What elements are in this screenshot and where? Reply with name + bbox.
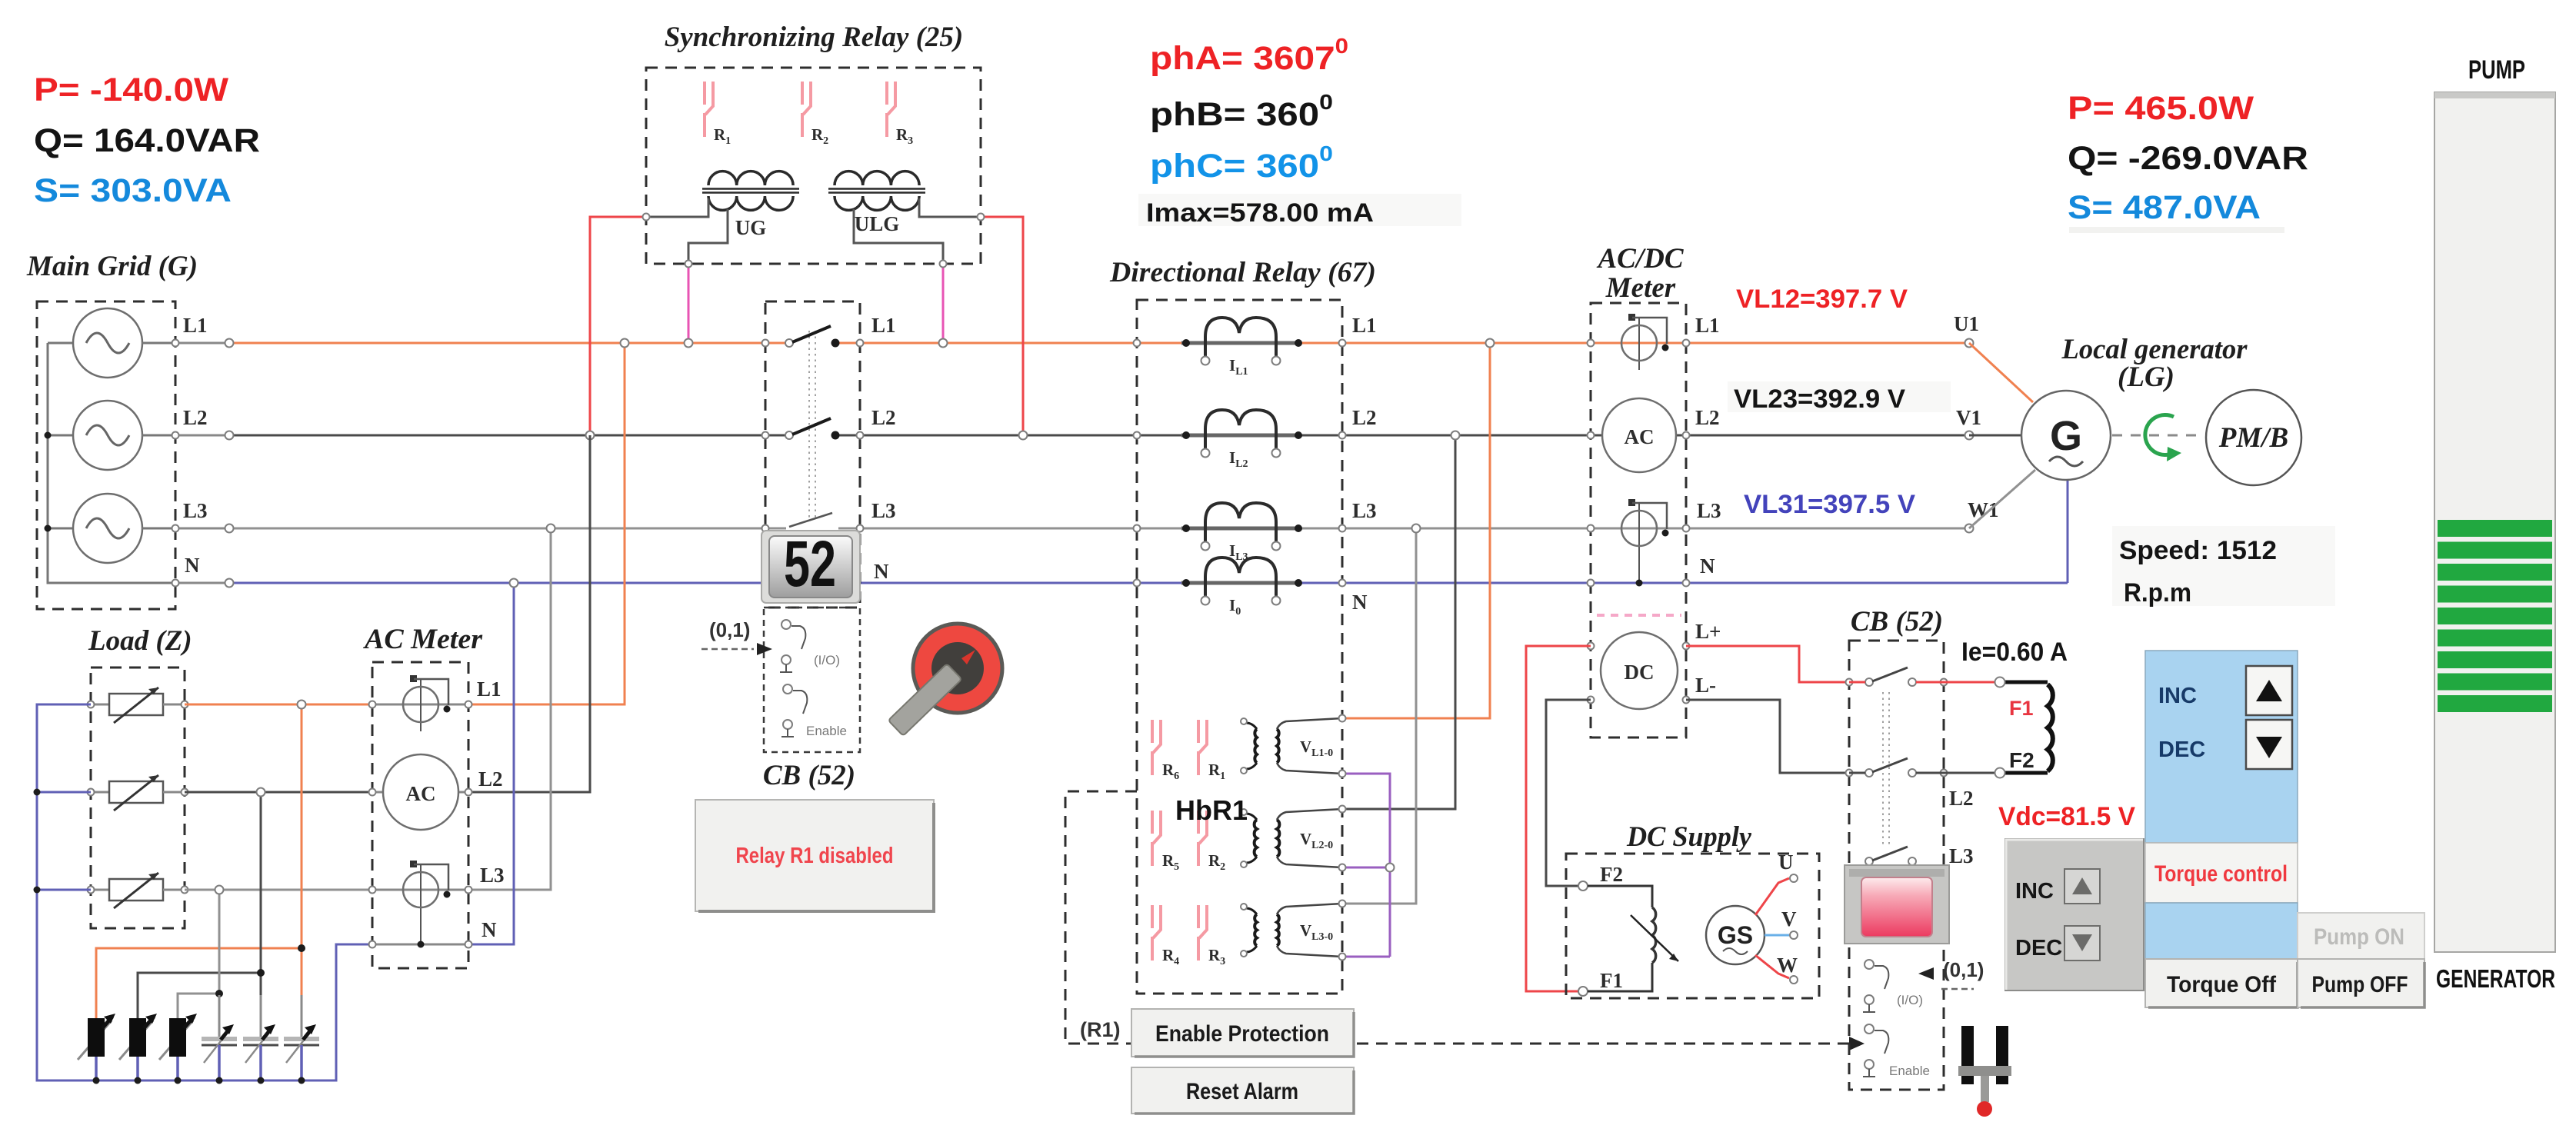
svg-text:Q= -269.0VAR: Q= -269.0VAR bbox=[2068, 140, 2308, 177]
wire sync magenta lead UG to L1 bbox=[688, 264, 690, 343]
node fork tool icon bbox=[1958, 1026, 2011, 1117]
breaker field linkage dotted bbox=[1883, 692, 1889, 846]
svg-text:Speed: 1512: Speed: 1512 bbox=[2119, 536, 2277, 565]
node Torque Off button bbox=[2145, 959, 2298, 1007]
inductor supply variable bbox=[1588, 886, 1678, 991]
wire N bus blue bbox=[233, 582, 2068, 584]
wire VL1-0 to L1 orange bbox=[1342, 343, 1490, 718]
svg-text:CB (52): CB (52) bbox=[1851, 606, 1943, 638]
svg-text:U1: U1 bbox=[1954, 312, 1979, 335]
wire sync red lead to L2 left bbox=[590, 217, 646, 435]
source G3 AC source circle bbox=[73, 494, 175, 563]
svg-text:L1: L1 bbox=[871, 314, 896, 337]
wire DC L+ red to CB bbox=[1526, 646, 1849, 991]
wire meter stub to N bbox=[1638, 554, 1640, 583]
svg-text:L3: L3 bbox=[871, 499, 896, 522]
wire load row1 to AC meter bbox=[185, 704, 372, 706]
svg-text:Meter: Meter bbox=[1605, 272, 1676, 304]
svg-text:Pump OFF: Pump OFF bbox=[2312, 972, 2408, 997]
node junction L2 red left bbox=[586, 431, 595, 440]
breaker CB52 field box bbox=[1849, 641, 1944, 1090]
wire rheostat branch L2 dark bbox=[138, 792, 261, 1018]
node Main Grid box bbox=[37, 301, 175, 609]
wire grid internal bus bbox=[48, 343, 175, 583]
svg-text:Reset Alarm: Reset Alarm bbox=[1186, 1079, 1298, 1104]
svg-text:L2: L2 bbox=[1695, 406, 1720, 429]
wire AC meter internals bbox=[372, 704, 468, 944]
relay contact R6 directional bbox=[1152, 720, 1179, 782]
wire L2 drop to load row bbox=[468, 435, 590, 792]
breaker field pole F- bbox=[1865, 758, 1916, 777]
svg-text:phB= 3600: phB= 3600 bbox=[1150, 90, 1333, 133]
wire L3 bus gray bbox=[233, 528, 1969, 530]
svg-text:L1: L1 bbox=[183, 314, 208, 337]
node (0,1) label field bbox=[1918, 958, 1984, 989]
wire L1 drop to load row bbox=[468, 343, 625, 704]
wire sync red lead to L2 right bbox=[981, 217, 1023, 435]
svg-text:N: N bbox=[482, 918, 497, 941]
rheostat R1 load bank bbox=[78, 1014, 115, 1080]
capacitor C2 load bank variable bbox=[243, 995, 278, 1080]
svg-text:UG: UG bbox=[735, 216, 767, 239]
wire grid stubs to terminals bbox=[175, 343, 229, 583]
svg-text:Pump ON: Pump ON bbox=[2314, 924, 2404, 950]
svg-text:(LG): (LG) bbox=[2118, 361, 2174, 393]
meter AC acdc bbox=[1602, 398, 1676, 472]
node terminal U1 bbox=[1965, 339, 1974, 348]
svg-text:F1: F1 bbox=[2009, 697, 2034, 720]
transformer CT I0 bbox=[1181, 558, 1302, 618]
contact IO cb52 bbox=[780, 620, 840, 672]
wire load row3 to AC meter bbox=[185, 889, 372, 891]
svg-text:PM/B: PM/B bbox=[2218, 422, 2288, 454]
svg-text:W1: W1 bbox=[1968, 498, 1999, 521]
node junction L1 drop bbox=[621, 339, 629, 348]
wire generator neutral bbox=[2067, 480, 2069, 583]
relay contact R2 bbox=[802, 82, 828, 147]
svg-text:(I/O): (I/O) bbox=[1897, 993, 1923, 1007]
capacitor C3 load bank variable bbox=[202, 995, 237, 1080]
node grid line terminal bbox=[225, 339, 234, 348]
relay contact R3 directional bbox=[1198, 905, 1225, 967]
svg-text:P= 465.0W: P= 465.0W bbox=[2068, 90, 2254, 127]
svg-text:Load (Z): Load (Z) bbox=[88, 625, 192, 657]
svg-text:VL31=397.5 V: VL31=397.5 V bbox=[1744, 490, 1915, 519]
node junction L2 red right bbox=[1019, 431, 1028, 440]
node Load box bbox=[91, 668, 185, 928]
wire load row2 to AC meter bbox=[185, 791, 372, 794]
svg-text:ULG: ULG bbox=[855, 212, 900, 235]
wire L1 bus orange bbox=[233, 342, 1969, 345]
node R1 link arrow bbox=[1849, 1037, 1865, 1050]
wire sync magenta lead ULG to L1 bbox=[942, 264, 945, 343]
svg-text:F2: F2 bbox=[1600, 863, 1623, 886]
svg-text:V1: V1 bbox=[1956, 406, 1981, 429]
node torque panel blue top bbox=[2145, 651, 2298, 843]
svg-text:Enable: Enable bbox=[806, 724, 847, 738]
node terminal V bbox=[1790, 931, 1798, 939]
svg-text:Synchronizing Relay (25): Synchronizing Relay (25) bbox=[665, 22, 964, 53]
svg-text:L1: L1 bbox=[1352, 314, 1377, 337]
svg-text:VL23=392.9 V: VL23=392.9 V bbox=[1734, 385, 1905, 414]
svg-text:(I/O): (I/O) bbox=[814, 653, 840, 668]
transformer ULG bbox=[828, 171, 925, 235]
svg-text:AC Meter: AC Meter bbox=[363, 624, 483, 655]
node grid box terminal bbox=[172, 340, 179, 347]
svg-text:Torque Off: Torque Off bbox=[2167, 972, 2277, 997]
node terminal U bbox=[1790, 874, 1798, 882]
node grid line terminal bbox=[225, 431, 234, 440]
node grid box terminal bbox=[172, 580, 179, 587]
meter M1 acdc L1 bbox=[1621, 314, 1669, 370]
rheostat R2 load bank bbox=[119, 1014, 157, 1080]
svg-text:W: W bbox=[1777, 954, 1798, 977]
node Relay R1 disabled button bbox=[695, 800, 934, 911]
svg-text:DEC: DEC bbox=[2158, 737, 2205, 762]
node junction L1 right drop bbox=[1486, 339, 1495, 348]
node field edge terminals bbox=[1846, 679, 1853, 686]
svg-text:L2: L2 bbox=[478, 767, 503, 791]
node ac meter edge terminals bbox=[369, 701, 376, 708]
svg-text:F1: F1 bbox=[1600, 969, 1623, 992]
svg-text:N: N bbox=[1700, 554, 1715, 578]
svg-text:L3: L3 bbox=[1352, 499, 1377, 522]
node grid line terminal bbox=[225, 579, 234, 588]
wire GS to V blue bbox=[1765, 934, 1789, 937]
svg-text:L2: L2 bbox=[1352, 406, 1377, 429]
breaker pole L1 bbox=[785, 326, 840, 348]
node VL23 readout bbox=[1728, 381, 1951, 412]
svg-text:L1: L1 bbox=[477, 678, 502, 701]
wire GS to U red bbox=[1755, 878, 1789, 915]
node Reset Alarm button bbox=[1131, 1067, 1354, 1114]
svg-text:Relay R1 disabled: Relay R1 disabled bbox=[736, 844, 894, 868]
svg-text:INC: INC bbox=[2158, 684, 2197, 708]
relay contact R2 directional bbox=[1198, 811, 1225, 873]
svg-text:Main Grid (G): Main Grid (G) bbox=[26, 251, 198, 282]
svg-text:DEC: DEC bbox=[2015, 936, 2062, 961]
node junction L2 right drop bbox=[1451, 431, 1460, 440]
svg-text:G: G bbox=[2050, 413, 2082, 459]
node grid box terminal bbox=[172, 525, 179, 532]
node pump level green segments bbox=[2438, 520, 2552, 712]
svg-text:DC Supply: DC Supply bbox=[1626, 821, 1752, 853]
node (0,1) label cb52 bbox=[701, 618, 772, 655]
generator G circle bbox=[2021, 391, 2111, 480]
generator GS circle bbox=[1706, 906, 1765, 964]
wire L2 bus dark bbox=[233, 434, 1969, 437]
node torque down button bbox=[2246, 720, 2292, 769]
svg-text:R.p.m: R.p.m bbox=[2124, 578, 2191, 608]
svg-text:AC: AC bbox=[406, 782, 436, 805]
breaker pole L2 bbox=[785, 418, 840, 440]
transformer VL3-0 coil bbox=[1241, 904, 1342, 957]
node terminal W bbox=[1790, 976, 1798, 984]
contact Enable field bbox=[1863, 1024, 1930, 1078]
meter M2 acdc L3 bbox=[1621, 499, 1669, 555]
svg-text:AC: AC bbox=[1625, 425, 1655, 448]
wire GS to W red bbox=[1755, 955, 1789, 978]
wire UG left lead bbox=[646, 198, 708, 217]
transformer CT IL3 bbox=[1181, 503, 1302, 563]
wire field F2 dark bbox=[1849, 772, 1995, 774]
node Imax readout bbox=[1138, 194, 1461, 226]
node Vdc spinner panel bbox=[2005, 839, 2144, 990]
svg-text:L+: L+ bbox=[1695, 620, 1721, 643]
svg-text:P= -140.0W: P= -140.0W bbox=[34, 72, 228, 108]
svg-text:Local generator: Local generator bbox=[2061, 334, 2248, 365]
svg-text:N: N bbox=[1352, 591, 1368, 614]
svg-text:52: 52 bbox=[784, 528, 836, 600]
node junction L1 magenta left bbox=[685, 339, 693, 348]
wire load left blue bus bbox=[37, 704, 372, 1080]
svg-text:AC/DC: AC/DC bbox=[1596, 243, 1684, 275]
wire rheostat branch L1 orange bbox=[96, 704, 302, 1018]
wire V1 to generator bbox=[1969, 434, 2021, 437]
contact IO field bbox=[1863, 960, 1923, 1012]
node purple junction bbox=[1386, 864, 1395, 872]
node branch junctions bbox=[298, 701, 306, 709]
svg-text:U: U bbox=[1778, 851, 1794, 874]
capacitor C1 load bank variable bbox=[284, 995, 319, 1080]
svg-text:PUMP: PUMP bbox=[2468, 55, 2525, 85]
meter AC main circle bbox=[383, 754, 458, 830]
node AC Meter box bbox=[372, 662, 468, 968]
svg-text:phA= 36070: phA= 36070 bbox=[1150, 34, 1348, 77]
svg-text:V: V bbox=[1781, 907, 1797, 931]
resistor load Z2 variable bbox=[88, 775, 188, 811]
wire U1 to generator bbox=[1969, 343, 2033, 402]
node CB52 edge terminals bbox=[762, 340, 769, 347]
svg-text:Ie=0.60 A: Ie=0.60 A bbox=[1961, 638, 2068, 667]
node grid line terminal bbox=[225, 524, 234, 533]
wire ULG bottom tap bbox=[854, 209, 943, 264]
node torque up button bbox=[2246, 666, 2292, 715]
node V element edge terminals bbox=[1339, 715, 1346, 722]
wire ULG right lead bbox=[919, 198, 981, 217]
node junction N drop bbox=[510, 579, 518, 588]
node load bus dots bbox=[93, 1077, 100, 1084]
motor PM/B circle bbox=[2206, 390, 2301, 485]
wire V neutral purple link bbox=[1342, 774, 1390, 957]
svg-text:Enable Protection: Enable Protection bbox=[1155, 1021, 1329, 1047]
svg-text:CB (52): CB (52) bbox=[763, 760, 855, 791]
meter DC acdc bbox=[1601, 632, 1678, 709]
node terminal V1 bbox=[1965, 431, 1974, 440]
node Speed readout bbox=[2112, 526, 2335, 606]
node Pump OFF button bbox=[2298, 959, 2424, 1007]
breaker CB52 IO box bbox=[764, 608, 860, 752]
relay contact R5 directional bbox=[1152, 811, 1179, 873]
svg-text:(0,1): (0,1) bbox=[709, 618, 750, 641]
node R1 link dashed box bbox=[1065, 791, 1851, 1044]
svg-text:HbR1: HbR1 bbox=[1175, 794, 1248, 826]
transformer VL1-0 coil bbox=[1241, 718, 1342, 774]
svg-text:(0,1): (0,1) bbox=[1943, 958, 1984, 981]
transformer UG bbox=[702, 171, 799, 239]
node junction L3 drop bbox=[547, 524, 555, 533]
svg-text:L3: L3 bbox=[1949, 844, 1974, 867]
svg-text:F2: F2 bbox=[2009, 748, 2034, 772]
svg-text:L1: L1 bbox=[1695, 314, 1720, 337]
node Synchronizing Relay box bbox=[646, 68, 981, 264]
rheostat R3 load bank bbox=[159, 1014, 197, 1080]
svg-text:phC= 3600: phC= 3600 bbox=[1150, 141, 1333, 185]
node Enable Protection button bbox=[1131, 1009, 1354, 1057]
svg-text:N: N bbox=[874, 560, 889, 583]
contact Enable cb52 bbox=[781, 684, 847, 738]
node torque control strip bbox=[2145, 843, 2298, 903]
breaker linkage dotted bbox=[809, 331, 815, 520]
relay contact R1 directional bbox=[1198, 720, 1225, 782]
node AC/DC Meter box bbox=[1591, 303, 1686, 737]
svg-text:S= 487.0VA: S= 487.0VA bbox=[2068, 189, 2261, 226]
node junction L1 magenta right bbox=[939, 339, 948, 348]
node terminal W1 bbox=[1965, 524, 1974, 533]
node terminal F2 supply bbox=[1578, 881, 1588, 891]
node junction L3 right drop bbox=[1412, 524, 1421, 533]
wire N drop to load row bbox=[468, 583, 514, 944]
wire field F1 red bbox=[1849, 681, 1995, 684]
node directional edge terminals bbox=[1134, 340, 1141, 347]
wire L3 drop to load row bbox=[468, 528, 551, 890]
meter M1 ac meter L1 bbox=[403, 675, 451, 731]
svg-text:L3: L3 bbox=[1697, 499, 1721, 522]
svg-text:L3: L3 bbox=[183, 499, 208, 522]
svg-text:INC: INC bbox=[2015, 879, 2054, 904]
breaker pole L3 bbox=[789, 513, 832, 527]
svg-text:L2: L2 bbox=[1949, 787, 1974, 810]
node sync terminals bbox=[643, 214, 650, 221]
relay contact R3 bbox=[887, 82, 913, 147]
wire W1 to generator bbox=[1969, 470, 2035, 528]
node DC Supply box bbox=[1566, 854, 1819, 998]
wire UG bottom tap bbox=[688, 209, 728, 264]
breaker field pole spare bbox=[1865, 847, 1916, 865]
svg-text:Enable: Enable bbox=[1889, 1064, 1930, 1078]
svg-text:Directional Relay (67): Directional Relay (67) bbox=[1109, 257, 1376, 288]
source G2 AC source circle bbox=[73, 401, 175, 470]
node acdc edge terminals bbox=[1588, 340, 1595, 347]
node terminal F1 supply bbox=[1578, 987, 1588, 996]
svg-text:L3: L3 bbox=[480, 864, 505, 887]
node pink divider bbox=[1597, 614, 1681, 617]
transformer CT IL1 bbox=[1181, 318, 1302, 378]
svg-text:L2: L2 bbox=[871, 406, 896, 429]
node Directional Relay box bbox=[1137, 300, 1342, 994]
breaker 52 button bbox=[761, 528, 860, 603]
transformer CT IL2 bbox=[1181, 410, 1302, 470]
resistor load Z3 variable bbox=[88, 873, 188, 908]
source G1 AC source circle bbox=[73, 308, 175, 378]
meter M2 ac meter L3 bbox=[403, 861, 451, 917]
svg-text:VL12=397.7 V: VL12=397.7 V bbox=[1736, 285, 1908, 314]
node torque panel blue bottom bbox=[2145, 903, 2298, 959]
inductor field winding bbox=[1995, 678, 2053, 778]
node grid box terminal bbox=[172, 432, 179, 439]
wire rheostat branch L3 gray bbox=[178, 890, 219, 1018]
wire VL3-0 to L3 gray bbox=[1342, 528, 1416, 904]
resistor load Z1 variable bbox=[88, 688, 188, 723]
svg-text:GS: GS bbox=[1718, 921, 1753, 949]
wire DC L- dark to CB bbox=[1546, 700, 1849, 886]
wire VL2-0 to L2 dark bbox=[1342, 435, 1455, 809]
breaker field pole F+ bbox=[1865, 668, 1916, 686]
node pump level bar bbox=[2434, 92, 2555, 952]
transformer VL2-0 coil bbox=[1241, 809, 1342, 867]
node Pump ON button bbox=[2298, 913, 2424, 959]
node red pushbutton bbox=[1845, 865, 1949, 944]
wire shaft dashed bbox=[2112, 434, 2203, 437]
svg-text:L2: L2 bbox=[183, 406, 208, 429]
breaker CB52 main box bbox=[765, 301, 860, 608]
svg-text:Torque control: Torque control bbox=[2154, 861, 2288, 887]
svg-text:Q= 164.0VAR: Q= 164.0VAR bbox=[34, 122, 260, 159]
relay contact R1 bbox=[705, 82, 731, 147]
node rotary knob icon bbox=[888, 624, 1002, 736]
svg-text:N: N bbox=[185, 554, 200, 577]
wire meter L3 stub to N bbox=[420, 915, 422, 944]
node rotation arrow green bbox=[2145, 415, 2181, 462]
svg-text:(R1): (R1) bbox=[1080, 1018, 1121, 1041]
svg-text:DC: DC bbox=[1625, 661, 1655, 684]
svg-text:GENERATOR: GENERATOR bbox=[2436, 964, 2555, 993]
relay contact R4 directional bbox=[1152, 905, 1179, 967]
svg-text:Imax=578.00 mA: Imax=578.00 mA bbox=[1146, 198, 1374, 228]
svg-text:L-: L- bbox=[1695, 674, 1716, 697]
svg-text:Vdc=81.5 V: Vdc=81.5 V bbox=[1998, 802, 2135, 831]
svg-text:S= 303.0VA: S= 303.0VA bbox=[34, 172, 232, 209]
